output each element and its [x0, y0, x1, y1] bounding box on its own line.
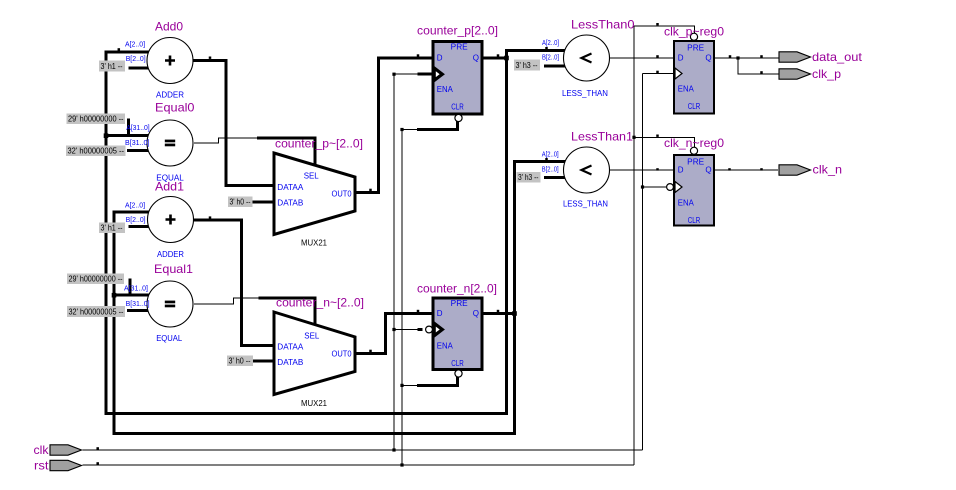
wire counter_n.Q [482, 312, 516, 315]
value 32'h00000005 (Equal0.B) [66, 146, 126, 157]
comparator LessThan1 [564, 147, 610, 193]
wire tick [209, 216, 212, 218]
wire Add0.out horizontal [193, 59, 226, 62]
svg-text:LessThan0: LessThan0 [571, 18, 635, 32]
value 29'h00000000 (Equal0.A) [67, 114, 126, 125]
svg-text:LESS_THAN: LESS_THAN [563, 199, 608, 208]
junction counter_p.Q [504, 56, 509, 61]
svg-text:DATAB: DATAB [277, 199, 303, 208]
svg-text:DATAA: DATAA [277, 183, 304, 192]
wire counter_p CLR stub [417, 121, 458, 130]
svg-text:ADDER: ADDER [157, 250, 184, 259]
wire MUX_n SEL [259, 298, 315, 326]
flip-flop counter_p[2..0] [433, 42, 482, 122]
wire Add1.out to MUX_n DATAA [194, 220, 274, 346]
adder Add0 [147, 38, 193, 84]
wire tick [497, 54, 500, 56]
wire rst net [83, 464, 635, 466]
wire tick [728, 168, 731, 170]
svg-text:SEL: SEL [304, 171, 320, 180]
svg-text:B[2..0]: B[2..0] [542, 54, 559, 61]
wire Equal0.B [127, 149, 152, 152]
value 3'h0 (MUX_p.DATAB) [228, 197, 253, 208]
wire tick [656, 55, 659, 57]
wire counter_n feedback loop [114, 162, 570, 434]
output pin clk_p [779, 69, 811, 79]
value 3'h3 (LessThan0.B) [514, 60, 540, 71]
svg-text:D: D [678, 165, 684, 174]
junction clk/reg_n clk [641, 185, 644, 188]
wire Add0.A [105, 51, 153, 54]
mux counter_n~[2..0] MUX21 [274, 312, 355, 395]
wire MUX_p DATAA [225, 184, 275, 187]
wire LessThan1.B [544, 176, 570, 179]
wire reg_p PRE [634, 26, 694, 34]
comparator Equal1 [147, 281, 193, 327]
svg-text:D: D [678, 53, 684, 62]
value 3'h1 (Add0.B) [99, 61, 125, 72]
svg-text:counter_n[2..0]: counter_n[2..0] [417, 281, 497, 295]
wire counter_n CLR thin [402, 384, 417, 386]
wire tick [656, 168, 659, 170]
wire Equal1.A const stub [129, 279, 132, 296]
svg-text:PRE: PRE [451, 43, 468, 52]
junction rst counter_p [400, 128, 403, 131]
junction clk counter_p [392, 73, 395, 76]
value 29'h00000000 (Equal1.A) [67, 274, 124, 285]
wire Equal1.B [127, 309, 152, 312]
wire tick [96, 447, 99, 449]
svg-text:32' h00000005 --: 32' h00000005 -- [68, 146, 125, 155]
svg-text:3' h0 --: 3' h0 -- [230, 197, 251, 206]
adder Add1 [148, 197, 194, 243]
wire clk net [83, 449, 643, 451]
wire tick [96, 462, 99, 464]
svg-text:data_out: data_out [812, 50, 863, 64]
wire tick [118, 48, 121, 50]
svg-text:A[2..0]: A[2..0] [542, 40, 559, 47]
svg-text:ENA: ENA [437, 85, 454, 94]
wire tick [545, 158, 548, 160]
wire MUX_p SEL [257, 138, 315, 167]
wire LessThan0.B [544, 65, 570, 68]
svg-text:B[2..0]: B[2..0] [126, 217, 146, 224]
value 32'h00000005 (Equal1.B) [67, 306, 125, 317]
svg-text:PRE: PRE [687, 158, 704, 167]
flip-flop clk_n~reg0 [667, 147, 714, 225]
svg-text:clk_p~reg0: clk_p~reg0 [664, 25, 724, 39]
wire tick [545, 47, 548, 49]
svg-text:CLR: CLR [688, 102, 701, 111]
flip-flop counter_n[2..0] [426, 298, 482, 377]
junction rst/reg_n PRE [632, 136, 635, 139]
wire tick [760, 168, 763, 170]
value 3'h3 (LessThan1.B) [517, 172, 541, 183]
svg-text:ENA: ENA [678, 85, 695, 94]
wire tick [656, 135, 659, 137]
svg-text:Add0: Add0 [155, 20, 183, 34]
wire tick [760, 55, 763, 57]
svg-text:3' h3 --: 3' h3 -- [516, 61, 538, 70]
svg-text:EQUAL: EQUAL [156, 174, 184, 183]
wire counter_p clk thin [394, 73, 417, 75]
junction counter_n.Q [512, 311, 517, 316]
junction data_out/clk_p [736, 56, 739, 59]
svg-text:OUT0: OUT0 [332, 190, 353, 199]
svg-text:CLR: CLR [688, 216, 701, 225]
wire Equal1.A [113, 294, 153, 297]
svg-text:clk: clk [34, 443, 50, 457]
wire tick [369, 350, 372, 352]
svg-text:3' h0 --: 3' h0 -- [229, 356, 251, 365]
wire LessThan0.out to reg_p.D [605, 57, 674, 59]
svg-text:Q: Q [473, 53, 479, 62]
wire reg_n.Q to clk_n [714, 169, 778, 171]
comparator Equal0 [147, 120, 193, 166]
junction clk vertical [392, 448, 395, 451]
svg-text:Q: Q [705, 165, 711, 174]
svg-text:counter_p[2..0]: counter_p[2..0] [417, 24, 498, 38]
wire counter_p.Q [482, 57, 508, 60]
svg-text:EQUAL: EQUAL [156, 334, 183, 343]
svg-text:DATAA: DATAA [277, 342, 304, 351]
svg-text:LessThan1: LessThan1 [571, 130, 633, 144]
wire rst right vertical [633, 26, 635, 465]
svg-text:clk_n~reg0: clk_n~reg0 [664, 136, 724, 150]
svg-text:A[31..0]: A[31..0] [126, 125, 150, 132]
svg-text:B[31..0]: B[31..0] [125, 140, 150, 147]
svg-text:B[31..0]: B[31..0] [126, 301, 150, 308]
wire MUX_p.OUT0 to counter_p.D [355, 58, 434, 193]
svg-text:A[31..0]: A[31..0] [124, 286, 148, 293]
junction Equal0.A [104, 133, 109, 138]
value 3'h0 (MUX_n.DATAB) [227, 356, 253, 367]
svg-text:A[2..0]: A[2..0] [125, 202, 145, 209]
comparator LessThan0 [564, 35, 610, 81]
svg-text:CLR: CLR [451, 103, 464, 112]
wire MUX_n DATAB [253, 360, 274, 363]
svg-text:LESS_THAN: LESS_THAN [562, 89, 608, 98]
junction clk counter_n [392, 328, 395, 331]
wire tick [417, 310, 420, 312]
value 3'h1 (Add1.B) [99, 223, 125, 234]
svg-text:ENA: ENA [678, 199, 695, 208]
wire clk left vertical [393, 74, 395, 450]
flip-flop clk_p~reg0 [674, 33, 714, 113]
wire counter_n CLR stub [417, 377, 458, 385]
svg-text:CLR: CLR [451, 359, 464, 368]
junction Equal1.A [112, 293, 117, 298]
junction rst counter_n [400, 384, 403, 387]
svg-text:Q: Q [473, 309, 479, 318]
wire branch to clk_p pin [738, 58, 779, 74]
wire reg_n PRE [634, 137, 694, 147]
svg-text:3' h1 --: 3' h1 -- [101, 223, 123, 232]
svg-text:3' h3 --: 3' h3 -- [518, 173, 539, 182]
wire tick [497, 310, 500, 312]
svg-text:ENA: ENA [437, 342, 454, 351]
wire clk right vertical [642, 74, 644, 451]
wire Add0.out vertical [225, 59, 228, 186]
wire reg_p clk [643, 73, 675, 75]
wire reg_n clk [643, 186, 667, 188]
svg-text:3' h1 --: 3' h1 -- [101, 62, 123, 71]
wire counter_n clk thin [394, 329, 417, 331]
wire tick [760, 71, 763, 73]
svg-text:B[2..0]: B[2..0] [542, 167, 559, 174]
svg-text:A[2..0]: A[2..0] [125, 42, 145, 49]
svg-text:PRE: PRE [451, 299, 468, 308]
wire Add1.A [113, 211, 153, 214]
junction rst vertical [400, 463, 403, 466]
svg-text:ADDER: ADDER [156, 90, 184, 99]
wire counter_p feedback loop [106, 51, 570, 414]
svg-text:29' h00000000 --: 29' h00000000 -- [68, 114, 124, 123]
wire Add0.B from 3h1 [128, 67, 152, 70]
wire Equal0.A const stub [127, 119, 130, 136]
svg-text:counter_p~[2..0]: counter_p~[2..0] [275, 136, 363, 150]
wire rst left vertical [401, 130, 403, 466]
svg-text:OUT0: OUT0 [332, 349, 353, 358]
wire counter_n clk stub [417, 328, 422, 331]
wire tick [369, 189, 372, 191]
wire Equal0.A [105, 134, 153, 137]
svg-text:SEL: SEL [304, 331, 320, 340]
svg-text:D: D [437, 309, 443, 318]
svg-text:clk_n: clk_n [813, 163, 843, 177]
wire LessThan1.out to reg_n.D [605, 169, 674, 171]
svg-text:A[2..0]: A[2..0] [542, 152, 559, 159]
svg-text:32' h00000005 --: 32' h00000005 -- [69, 307, 124, 316]
wire reg_p.Q to data_out [714, 57, 779, 59]
svg-text:29' h00000000 --: 29' h00000000 -- [69, 274, 123, 283]
svg-text:Equal0: Equal0 [155, 101, 195, 115]
wire MUX_p DATAB [253, 200, 275, 203]
wire Add1.B from 3h1 [128, 225, 152, 228]
wire tick [656, 23, 659, 25]
svg-text:PRE: PRE [687, 44, 704, 53]
svg-text:rst: rst [34, 458, 49, 472]
wire tick [209, 57, 212, 59]
svg-text:DATAB: DATAB [277, 358, 303, 367]
svg-text:D: D [437, 53, 443, 62]
wire counter_p CLR thin [402, 129, 417, 131]
output pin clk_n [779, 165, 811, 175]
wire tick [417, 54, 420, 56]
wire MUX_n.OUT0 to counter_n.D [355, 314, 433, 354]
wire counter_p clk stub [417, 73, 434, 76]
output pin data_out [779, 52, 811, 62]
wire tick [656, 71, 659, 73]
svg-text:counter_n~[2..0]: counter_n~[2..0] [276, 296, 364, 310]
svg-text:MUX21: MUX21 [301, 399, 328, 408]
mux counter_p~[2..0] MUX21 [274, 153, 355, 235]
svg-text:B[2..0]: B[2..0] [126, 56, 146, 63]
svg-text:MUX21: MUX21 [301, 239, 328, 248]
wire Equal1.out thin [194, 298, 259, 304]
input pin clk [50, 445, 82, 455]
svg-text:Q: Q [705, 53, 711, 62]
wire tick [729, 55, 732, 57]
svg-text:clk_p: clk_p [812, 67, 841, 81]
input pin rst [50, 460, 82, 470]
svg-text:Equal1: Equal1 [154, 262, 193, 276]
wire Equal0.out thin [194, 138, 257, 143]
